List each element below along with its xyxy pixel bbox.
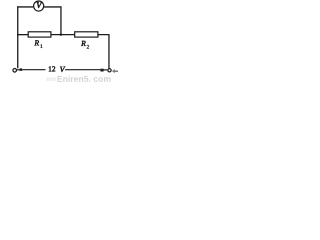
resistor R1 label subscript 1 — [41, 44, 43, 47]
junction dot at left middle T — [17, 34, 19, 36]
wire: middle right segment with corner down — [98, 35, 109, 69]
resistor R1 label R — [34, 40, 39, 45]
junction dot at node between R1 and R2 — [59, 34, 62, 36]
source label V — [60, 67, 65, 72]
resistor R2 label subscript 2 — [87, 45, 89, 48]
voltmeter U1 circle — [34, 1, 44, 11]
annotation arrow gray pointing left — [112, 69, 115, 73]
polarity mark left (solid square) — [20, 68, 23, 71]
resistor R2 body — [75, 32, 98, 37]
wire: top left segment — [17, 6, 33, 8]
wire: bottom left segment — [22, 69, 45, 71]
battery terminal right: open circle — [108, 69, 111, 72]
wire: bottom right segment — [65, 69, 100, 71]
wire: left terminal to polarity mark — [17, 69, 20, 71]
wire: middle left stub — [17, 34, 28, 36]
wire: top right segment with corner down — [44, 7, 61, 35]
battery terminal left: open circle — [13, 69, 17, 73]
voltmeter V label — [37, 2, 43, 8]
polarity mark right (solid square) — [100, 69, 103, 72]
resistor R1 body — [28, 32, 51, 37]
wire: left vertical — [17, 6, 19, 68]
wire: between R1 and R2 — [52, 34, 75, 36]
source label 12 — [49, 66, 55, 71]
watermark text faint lead — [47, 77, 56, 81]
wire: polarity mark to right terminal — [104, 69, 108, 71]
watermark text — [57, 76, 110, 82]
resistor R2 label R — [81, 41, 86, 46]
